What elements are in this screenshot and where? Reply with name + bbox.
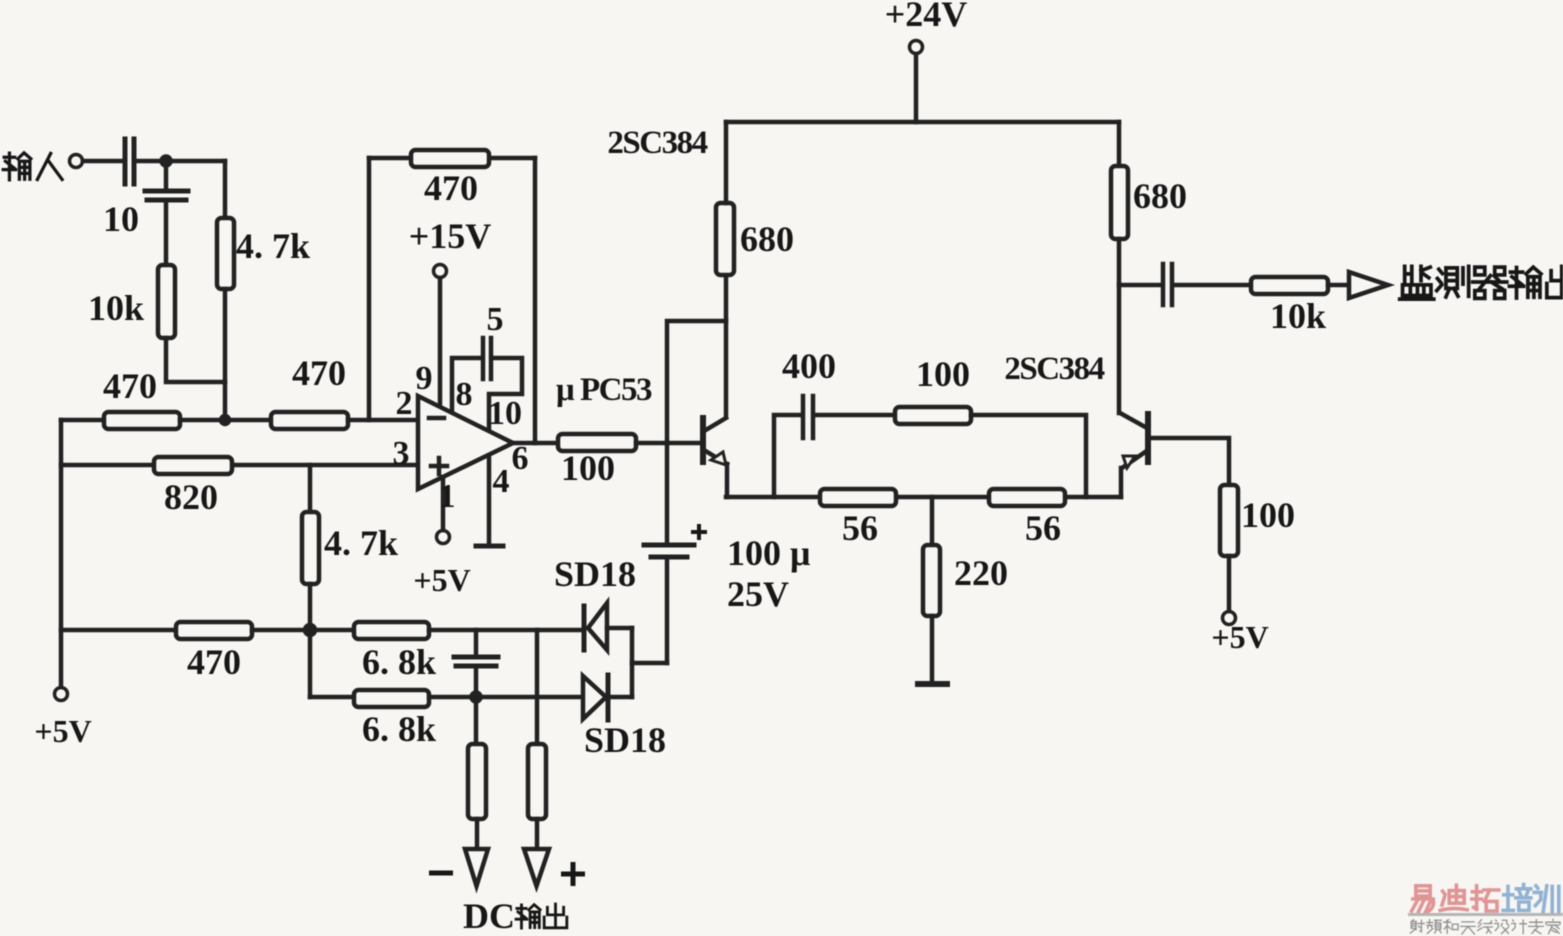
feedback loop top wire <box>369 156 535 161</box>
wire junction down to C2 <box>164 161 169 188</box>
resistor R 56 a <box>820 489 896 506</box>
svg-text:2SC384: 2SC384 <box>607 125 707 161</box>
terminal +24V <box>910 41 923 54</box>
wire row D to diode D2 <box>429 695 582 700</box>
resistor R 220 <box>923 545 940 616</box>
svg-text:3: 3 <box>393 435 410 472</box>
resistor R 470 a <box>104 412 180 429</box>
wire left vertical +5V <box>59 420 64 687</box>
resistor R 470 feedback <box>411 150 489 167</box>
transistor Q2 collector lead <box>1120 413 1147 428</box>
wire row A left <box>61 418 104 423</box>
DC output minus sign <box>429 871 453 876</box>
resistor R 470 c <box>176 622 252 639</box>
wire cap C3 top lead <box>474 630 479 655</box>
resistor R 4.7k (input) <box>217 218 234 289</box>
wire output tap <box>1119 283 1160 288</box>
wire right branch top <box>1117 122 1122 166</box>
svg-text:470: 470 <box>103 366 157 406</box>
svg-text:6. 8k: 6. 8k <box>362 709 436 749</box>
wire C2 to R 10k <box>164 202 169 265</box>
diode D2 SD18 cathode bar <box>606 675 611 720</box>
node row C junction <box>305 625 315 635</box>
svg-text:100: 100 <box>916 354 970 394</box>
svg-text:25V: 25V <box>727 574 789 614</box>
op-amp U1 uPC53 <box>418 396 513 489</box>
svg-text:2: 2 <box>396 385 413 422</box>
wire 100 to +5V <box>1227 556 1232 611</box>
svg-text:220: 220 <box>954 553 1008 593</box>
svg-text:+15V: +15V <box>409 216 492 256</box>
transistor Q1 base bar <box>700 418 706 462</box>
svg-text:820: 820 <box>164 477 218 517</box>
node row D junction <box>472 693 481 702</box>
svg-text:470: 470 <box>292 353 346 393</box>
input terminal 输入 <box>70 155 83 168</box>
wire 4.7k column 2 top <box>308 465 313 512</box>
svg-text:4. 7k: 4. 7k <box>236 226 310 266</box>
svg-text:56: 56 <box>842 508 878 548</box>
resistor R 100 Q2 base <box>1220 485 1238 556</box>
resistor R 6.8k b <box>354 690 429 707</box>
plus sign <box>431 458 447 474</box>
svg-text:μ PC53: μ PC53 <box>556 372 652 408</box>
svg-text:470: 470 <box>424 168 478 208</box>
ground 220 <box>918 681 947 687</box>
svg-text:DC: DC <box>463 896 515 936</box>
watermark 培训 <box>1503 885 1559 912</box>
wire fb row right vertical <box>971 415 1086 497</box>
svg-text:6: 6 <box>512 440 529 477</box>
resistor R 4.7k (bias) <box>302 512 319 584</box>
svg-text:+5V: +5V <box>1211 619 1268 655</box>
wire row E emitters <box>726 495 1121 500</box>
wire cap 400 to R100 <box>815 413 895 418</box>
wire 680a to rail <box>724 122 729 203</box>
wire diode junction vertical <box>630 628 635 697</box>
watermark underline <box>1408 913 1563 916</box>
resistor R 100 output <box>558 434 636 451</box>
resistor R 470 b <box>271 412 348 429</box>
capacitor C3 (filter) <box>454 657 498 666</box>
svg-text:SD18: SD18 <box>554 554 636 594</box>
wire DC minus lead <box>475 819 480 849</box>
svg-text:400: 400 <box>782 346 836 386</box>
wire 10k to arrow <box>1328 283 1349 288</box>
watermark 易迪拓 <box>1412 885 1499 912</box>
wire feedback right vertical <box>533 158 538 443</box>
wire cap to 10k <box>1174 283 1251 288</box>
wire Q1 emitter down <box>725 464 730 497</box>
wire row C mid <box>252 628 354 633</box>
terminal +5V left <box>55 688 68 701</box>
wire row B plus input <box>61 463 418 468</box>
svg-text:5: 5 <box>487 301 504 338</box>
wire row A mid <box>180 418 271 423</box>
svg-text:4: 4 <box>493 463 510 500</box>
Q2 emitter arrow <box>1123 456 1135 468</box>
svg-text:100: 100 <box>561 448 615 488</box>
resistor R 10k <box>158 265 175 338</box>
node input junction <box>162 157 171 166</box>
wire row C to diode D1 <box>429 628 581 633</box>
svg-text:56: 56 <box>1025 508 1061 548</box>
resistor R 10k out <box>1251 277 1328 294</box>
capacitor C1 (series input cap) <box>125 139 134 184</box>
Q1 emitter arrow <box>711 452 726 465</box>
wire op-amp output <box>513 441 558 446</box>
wire DC plus lead <box>535 819 540 849</box>
wire Q1 collector up <box>724 275 729 416</box>
svg-text:10: 10 <box>103 199 139 239</box>
wire C1 to 4.7k top corner <box>137 159 225 164</box>
svg-text:470: 470 <box>187 642 241 682</box>
monitor output arrow <box>1349 272 1388 298</box>
wire D2 cathode <box>610 695 632 700</box>
wire Q2 emitter down <box>1119 468 1124 497</box>
wire 10k bottom corner <box>166 338 225 382</box>
svg-text:100: 100 <box>1241 495 1295 535</box>
capacitor C out <box>1163 264 1172 305</box>
minus sign <box>429 416 444 421</box>
svg-text:10k: 10k <box>88 288 144 328</box>
resistor R DC minus <box>468 744 486 819</box>
wire output resistor to Q1 base <box>636 441 700 446</box>
svg-text:680: 680 <box>1133 176 1187 216</box>
capacitor C 400 <box>803 396 813 438</box>
svg-text:10k: 10k <box>1270 296 1326 336</box>
diode D1 SD18 <box>588 603 607 650</box>
resistor R 680 a <box>716 203 734 275</box>
svg-text:+24V: +24V <box>885 0 968 34</box>
wire DC minus column <box>474 697 479 744</box>
wire input to C1 <box>83 159 121 164</box>
label 输入 <box>3 153 31 180</box>
wire 4.7k column top <box>223 161 228 218</box>
DC minus arrow <box>465 849 488 886</box>
svg-text:10: 10 <box>488 395 522 432</box>
resistor R DC plus <box>528 744 546 819</box>
wire row D <box>310 695 354 700</box>
svg-text:4. 7k: 4. 7k <box>324 523 398 563</box>
transistor Q2 base bar <box>1145 414 1151 462</box>
svg-text:680: 680 <box>740 219 794 259</box>
resistor R 56 b <box>989 489 1065 506</box>
capacitor C comp pin5 <box>483 338 491 379</box>
wire right branch to Q2 <box>1117 239 1122 413</box>
svg-text:2SC384: 2SC384 <box>1004 351 1104 387</box>
wire pin1 to +5V <box>441 477 446 530</box>
wire cap 100u top lead to collector <box>667 321 726 543</box>
wire 220 to ground <box>930 616 935 682</box>
Q1 collector lead <box>704 418 726 431</box>
wire D1 anode <box>607 626 632 631</box>
watermark slogan 射频和天线设计专家 <box>1410 919 1560 934</box>
wire row C <box>61 628 176 633</box>
svg-text:6. 8k: 6. 8k <box>362 642 436 682</box>
terminal +5V pin1 <box>437 531 450 544</box>
wire cap C3 bottom lead <box>474 668 479 697</box>
Q2 emitter lead <box>1122 450 1148 468</box>
wire row A to op-amp minus <box>348 418 418 423</box>
capacitor C2 value 10 <box>145 191 188 200</box>
wire diode junction to cap column <box>632 661 667 666</box>
svg-text:1: 1 <box>439 478 456 515</box>
wire 4.7k bottom to row A <box>223 289 228 420</box>
DC plus arrow <box>524 849 549 886</box>
terminal +15V <box>434 265 447 278</box>
diode D2 SD18 <box>583 676 606 719</box>
terminal +5V right <box>1223 612 1236 625</box>
resistor R 680 b <box>1111 166 1128 239</box>
wire 220 column <box>930 497 935 545</box>
capacitor C 100u 25V <box>644 545 694 557</box>
Q1 emitter lead <box>704 450 727 464</box>
diode D1 SD18 cathode bar <box>582 606 587 650</box>
DC output plus sign <box>561 862 585 886</box>
wire +24V to rail <box>914 54 919 122</box>
resistor R 820 <box>154 457 232 474</box>
svg-text:+5V: +5V <box>413 562 470 598</box>
wire pin4 to ground <box>487 456 492 546</box>
label DC输出 chinese part <box>516 905 540 928</box>
svg-text:8: 8 <box>456 376 473 413</box>
100u plus sign <box>691 524 707 540</box>
svg-text:100 μ: 100 μ <box>727 533 810 573</box>
wire DC plus column <box>535 630 540 744</box>
wire comp cap left bracket pin8 <box>452 358 481 412</box>
wire feedback left vertical <box>367 158 372 420</box>
resistor R 6.8k a <box>354 622 429 639</box>
svg-text:9: 9 <box>416 360 433 397</box>
node row A junction <box>221 416 229 424</box>
label 监测器输出 <box>1400 266 1434 299</box>
ground pin4 <box>476 544 503 549</box>
wire +15V down to op-amp <box>438 278 443 406</box>
resistor R 100 fb <box>895 407 971 424</box>
top rail +24V <box>726 120 1119 125</box>
wire 4.7k column 2 bottom <box>308 584 313 697</box>
wire cap 100u bottom lead <box>665 559 670 663</box>
svg-text:+5V: +5V <box>34 713 91 749</box>
wire feedback row left vertical <box>774 415 801 497</box>
Q2 base wire <box>1151 438 1229 485</box>
svg-text:SD18: SD18 <box>584 720 666 760</box>
wire comp cap right bracket pin10 <box>489 358 522 430</box>
